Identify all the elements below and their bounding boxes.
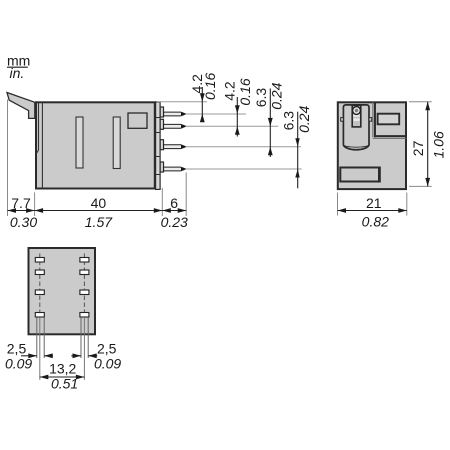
svg-text:1.06: 1.06 [430, 131, 446, 158]
svg-text:4.2: 4.2 [222, 81, 238, 101]
svg-text:13,2: 13,2 [49, 361, 76, 377]
svg-text:7.7: 7.7 [11, 195, 31, 211]
svg-text:0.24: 0.24 [269, 82, 285, 109]
svg-text:in.: in. [10, 65, 25, 81]
svg-text:0.09: 0.09 [5, 356, 32, 372]
svg-text:6.3: 6.3 [280, 111, 296, 131]
svg-text:2,5: 2,5 [7, 341, 27, 357]
svg-text:40: 40 [91, 195, 107, 211]
svg-text:0.30: 0.30 [10, 214, 37, 230]
svg-text:6: 6 [170, 195, 178, 211]
svg-text:2,5: 2,5 [97, 341, 117, 357]
svg-text:6.3: 6.3 [253, 88, 269, 108]
svg-text:21: 21 [366, 195, 382, 211]
svg-text:0.16: 0.16 [202, 73, 218, 100]
svg-text:27: 27 [410, 140, 426, 156]
svg-text:1.57: 1.57 [85, 214, 113, 230]
svg-text:0.51: 0.51 [51, 376, 78, 392]
svg-text:0.23: 0.23 [161, 214, 188, 230]
svg-text:0.09: 0.09 [94, 356, 121, 372]
svg-text:0.24: 0.24 [296, 105, 312, 132]
svg-text:0.82: 0.82 [362, 214, 389, 230]
svg-text:0.16: 0.16 [237, 78, 253, 105]
